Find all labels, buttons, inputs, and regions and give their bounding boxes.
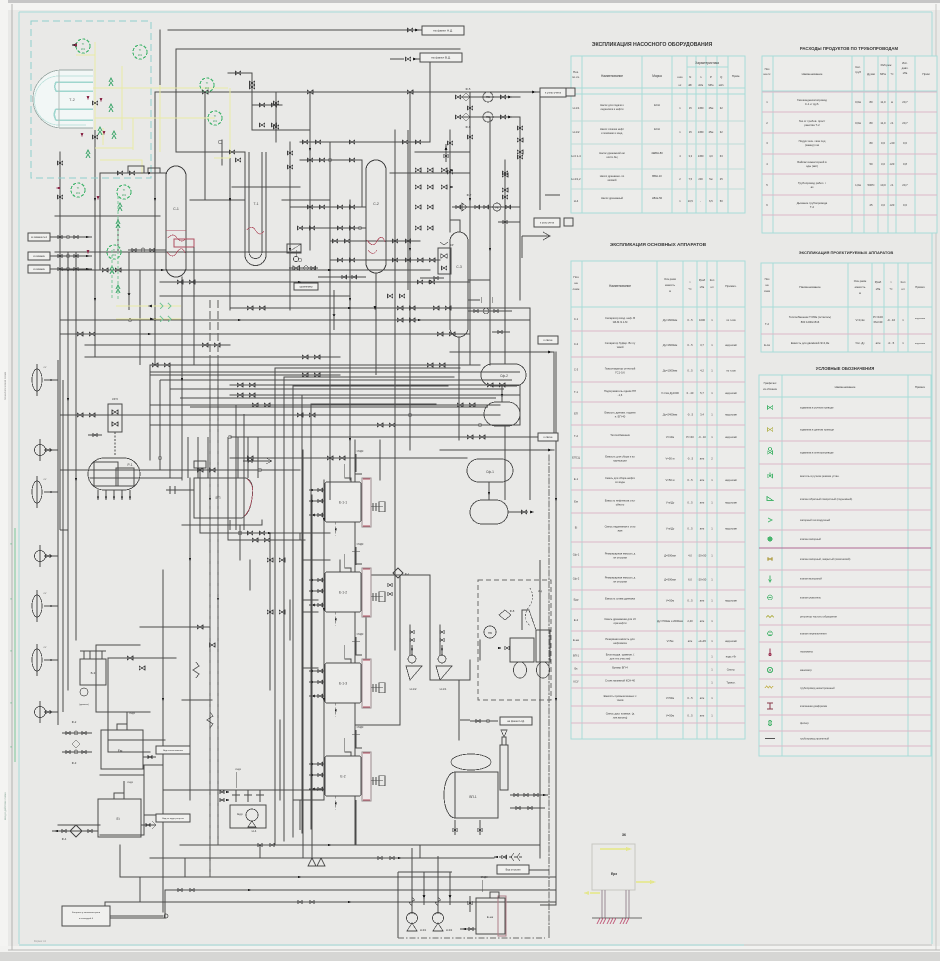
svg-text:Насос дренажной ем: Насос дренажной ем	[599, 151, 625, 155]
dash valve row above label	[494, 856, 522, 858]
wire h y458	[230, 457, 467, 459]
svg-text:Е-1-2: Е-1-2	[339, 591, 347, 595]
svg-text:Осн.разм: Осн.разм	[664, 277, 676, 281]
svg-text:-1,6: -1,6	[618, 393, 623, 397]
svg-text:0...40: 0...40	[687, 391, 694, 395]
wire v x68	[67, 252, 69, 690]
table T5 legend	[759, 366, 931, 756]
wire h y668	[303, 667, 318, 669]
svg-text:Характеристика: Характеристика	[695, 61, 719, 65]
valve at 405,142	[402, 140, 407, 144]
svg-text:ТІ: ТІ	[139, 48, 142, 52]
label to flare bottom	[500, 717, 532, 725]
svg-text:1000: 1000	[699, 318, 705, 322]
wire h y425	[150, 424, 520, 426]
svg-text:на сх: на сх	[764, 72, 771, 76]
wire h y658	[108, 657, 176, 659]
svg-text:V=50 м: V=50 м	[666, 457, 675, 461]
svg-text:1450: 1450	[698, 154, 704, 158]
svg-text:Смотр.: Смотр.	[727, 668, 736, 672]
wire v x163	[162, 570, 164, 912]
svg-text:надз.комп: надз.комп	[725, 344, 738, 347]
dehydrator E-2	[309, 738, 385, 810]
svg-text:Е-2: Е-2	[574, 618, 579, 622]
svg-text:НВ-Е-50: НВ-Е-50	[652, 196, 663, 200]
svg-text:технологическая схема: технологическая схема	[4, 371, 7, 400]
svg-text:Наименование: Наименование	[601, 74, 623, 78]
svg-text:Смесь друг. коммун. (д: Смесь друг. коммун. (д	[606, 712, 635, 716]
svg-text:1450: 1450	[698, 130, 704, 134]
svg-text:и площадей 4: и площадей 4	[79, 917, 94, 920]
valve at 310,160	[307, 158, 312, 162]
wire v x540	[539, 92, 541, 180]
wire h y252	[55, 251, 300, 253]
svg-text:из скважин №1: из скважин №1	[31, 236, 48, 239]
vessel Ei	[98, 781, 190, 837]
valve at 274,105	[271, 103, 276, 107]
wire h y478	[90, 477, 182, 479]
svg-text:3,4: 3,4	[700, 413, 704, 417]
wire h y437	[230, 436, 554, 438]
wire v x380	[379, 440, 381, 480]
svg-text:ЕСН: ЕСН	[654, 127, 660, 131]
wire v x105	[104, 902, 106, 918]
svg-text:Примеч: Примеч	[915, 385, 926, 389]
svg-text:ЭКСПЛИКАЦИЯ ПРОЕКТИРУЕМЫХ АППА: ЭКСПЛИКАЦИЯ ПРОЕКТИРУЕМЫХ АППАРАТОВ	[799, 250, 894, 255]
left manifold separators	[32, 360, 63, 725]
svg-text:50: 50	[869, 162, 873, 166]
svg-text:кПа: кПа	[700, 285, 705, 289]
svg-text:Вид на ждущ.отпр.зм: Вид на ждущ.отпр.зм	[162, 818, 184, 820]
wire h y216	[55, 215, 160, 217]
wire h y375	[150, 374, 340, 376]
wire h y92	[155, 91, 540, 93]
wire v x310	[309, 92, 311, 250]
svg-text:С-2: С-2	[373, 202, 379, 206]
svg-text:надз.+9т: надз.+9т	[726, 655, 737, 659]
svg-text:Резервуарная емкость д: Резервуарная емкость д	[605, 576, 636, 580]
svg-text:задвижка в электроприводе: задвижка в электроприводе	[800, 452, 834, 455]
wire v x470	[469, 660, 471, 680]
vessel VP-1 with stack	[444, 730, 548, 835]
svg-text:задвижка в ручном приводе: задвижка в ручном приводе	[800, 407, 834, 410]
wire h y395	[230, 394, 520, 396]
svg-text:Вид использования: Вид использования	[163, 750, 184, 752]
svg-text:СМДК: СМДК	[357, 543, 364, 546]
svg-text:ВП-1: ВП-1	[573, 654, 580, 658]
svg-text:Примеч: Примеч	[915, 285, 925, 289]
wire h y825	[58, 824, 100, 826]
svg-text:≡: ≡	[10, 649, 12, 653]
svg-text:Поз: Поз	[765, 277, 771, 281]
valve at 418,142	[415, 140, 420, 144]
svg-text:надз.комп: надз.комп	[915, 343, 926, 345]
svg-text:Н-1/2: Н-1/2	[573, 130, 580, 134]
wire v x410	[409, 92, 411, 450]
svg-text:0,6м: 0,6м	[855, 100, 861, 104]
valve at 300,228	[297, 226, 302, 230]
valve stack x95	[92, 101, 97, 105]
wire v x410	[409, 625, 411, 655]
svg-text:ойного: ойного	[616, 503, 625, 507]
svg-text:Е-1-3: Е-1-3	[339, 682, 347, 686]
svg-text:ЭЗ-М.Э.1-М: ЭЗ-М.Э.1-М	[613, 320, 628, 324]
svg-text:7,5: 7,5	[688, 177, 692, 181]
svg-text:Т-1: Т-1	[574, 390, 579, 394]
svg-text:трубопровод незастроенный: трубопровод незастроенный	[800, 686, 835, 690]
svg-text:0...5: 0...5	[687, 501, 693, 505]
wire v x395	[394, 130, 396, 590]
svg-text:Резервная емкость для: Резервная емкость для	[605, 637, 635, 641]
C-1 bottom red detail	[128, 239, 194, 365]
wire h y73	[228, 72, 252, 74]
valve at 262,105	[259, 103, 264, 107]
wire v x430	[429, 575, 431, 680]
svg-text:V=50м: V=50м	[666, 599, 674, 603]
svg-text:0...5: 0...5	[687, 369, 693, 373]
svg-text:Емкость для движtelей Э=4,0м: Емкость для движtelей Э=4,0м	[791, 341, 830, 345]
wire h y540	[228, 539, 305, 541]
svg-text:к-во: к-во	[677, 75, 683, 79]
svg-text:1,6м: 1,6м	[855, 183, 861, 187]
svg-text:-0...5: -0...5	[888, 341, 895, 345]
column C-3	[450, 232, 468, 337]
valve at 352,228	[349, 226, 354, 230]
svg-text:Формат А1: Формат А1	[34, 940, 47, 943]
pumps H-3/1 H-3/2	[398, 848, 453, 938]
svg-text:Н-1/1: Н-1/1	[440, 687, 447, 691]
valve at 352,142	[349, 140, 354, 144]
wire v x490	[489, 117, 491, 365]
svg-text:клапан переключения: клапан переключения	[800, 633, 827, 636]
svg-text:по т.осв: по т.осв	[726, 319, 736, 322]
svg-text:ЕПСЦ: ЕПСЦ	[572, 456, 580, 460]
svg-text:ТІ: ТІ	[206, 81, 209, 85]
svg-text:Н-4: Н-4	[252, 829, 257, 833]
wire h y173	[100, 172, 166, 174]
svg-text:на факел Н.Д.: на факел Н.Д.	[433, 29, 453, 33]
svg-text:V=5м: V=5м	[667, 639, 674, 643]
wire v x165	[164, 890, 166, 918]
dehydrator E-1-2	[309, 554, 385, 626]
wire h y345	[85, 344, 230, 346]
dash-dot vertical pair x210 x218	[209, 300, 211, 877]
svg-text:0,6: 0,6	[881, 141, 885, 145]
svg-text:Рт=100: Рт=100	[873, 315, 883, 319]
svg-text:≡: ≡	[10, 542, 12, 546]
wire v x276	[275, 92, 277, 142]
wire v x190	[189, 478, 191, 800]
svg-text:клапан указатель: клапан указатель	[800, 597, 822, 600]
svg-text:Кол: Кол	[710, 278, 715, 282]
svg-text:20,7: 20,7	[902, 100, 908, 104]
wire h y790	[163, 789, 324, 791]
wire v x228	[227, 478, 229, 540]
svg-text:-0...5: -0...5	[687, 413, 694, 417]
svg-text:Н-4: Н-4	[574, 199, 579, 203]
svg-text:СМДК: СМДК	[129, 713, 136, 715]
svg-text:атм: атм	[700, 528, 705, 531]
wire v x290	[289, 142, 291, 310]
wire v x205	[204, 92, 206, 200]
svg-text:Е-нж: Е-нж	[573, 638, 579, 642]
svg-text:ЭКСПЛИКАЦИЯ ОСНОВНЫХ АППАРАТОВ: ЭКСПЛИКАЦИЯ ОСНОВНЫХ АППАРАТОВ	[610, 242, 707, 247]
wire h y260	[330, 259, 440, 261]
wire v x140	[139, 270, 141, 330]
wire v x200	[199, 478, 201, 533]
svg-text:Е-сж: Е-сж	[764, 343, 770, 347]
label k uzlu ucheta 2	[534, 218, 560, 227]
heat exchanger T-2	[33, 70, 93, 128]
valve at 262,125	[259, 123, 264, 127]
svg-text:Ерз: Ерз	[611, 872, 617, 876]
svg-text:труб: труб	[855, 70, 861, 74]
wire v x540	[539, 845, 541, 858]
wire h y152	[415, 151, 470, 153]
wire h y600	[303, 599, 318, 601]
svg-text:°С: °С	[889, 287, 892, 291]
svg-text:надз.комп: надз.комп	[725, 479, 738, 482]
svg-text:Ду=1600мм: Ду=1600мм	[663, 343, 678, 347]
svg-text:201: 201	[81, 47, 86, 51]
vessel B-3	[79, 651, 106, 706]
valve stack x276	[273, 101, 278, 105]
valve at 352,160	[349, 158, 354, 162]
wire h y405	[150, 404, 500, 406]
wire v x362	[361, 160, 363, 207]
column C-2	[366, 160, 386, 273]
wire h y160	[300, 159, 362, 161]
svg-text:Емкость для сбора и ко: Емкость для сбора и ко	[605, 455, 635, 459]
svg-text:ВВН-10: ВВН-10	[652, 174, 662, 178]
svg-text:регулятор частоты обращения: регулятор частоты обращения	[800, 615, 837, 619]
svg-text:Блок выдув. уравнов. (: Блок выдув. уравнов. (	[606, 653, 635, 657]
svg-text:Наименование: Наименование	[799, 285, 821, 289]
svg-text:по т.осв: по т.осв	[726, 370, 736, 373]
svg-text:4,0: 4,0	[709, 154, 713, 158]
svg-text:термометр: термометр	[800, 651, 814, 654]
svg-text:Е-1: Е-1	[574, 477, 579, 481]
svg-text:ля отгрузки: ля отгрузки	[613, 557, 628, 560]
double vertical x408	[407, 130, 409, 290]
yellow lines E-rez	[583, 847, 656, 895]
svg-text:1450: 1450	[698, 106, 704, 110]
valve at 347,241	[344, 239, 349, 243]
wire v x118	[117, 216, 119, 252]
svg-text:надз.комп: надз.комп	[725, 436, 738, 439]
svg-text:800 1200х1516: 800 1200х1516	[801, 320, 820, 324]
C-3 bottom valve row	[468, 297, 512, 334]
svg-text:СМДК: СМДК	[481, 876, 488, 879]
extra bottom texture	[140, 405, 540, 904]
pipe break zigzag x196	[193, 662, 199, 678]
wire h y845	[180, 844, 540, 846]
wire h y385	[230, 384, 520, 386]
svg-text:-0...5: -0...5	[687, 457, 694, 461]
svg-text:об/м: об/м	[698, 84, 703, 87]
svg-text:задвижка в данном приводе: задвижка в данном приводе	[800, 429, 834, 432]
svg-text:по сх.: по сх.	[572, 75, 580, 79]
svg-text:25м: 25м	[709, 130, 714, 134]
wire h y890	[165, 889, 556, 891]
vessel Em	[101, 712, 190, 769]
green small arrows	[109, 78, 113, 82]
svg-text:надз.комп: надз.комп	[725, 528, 738, 531]
svg-text:Н-4/1,2: Н-4/1,2	[571, 177, 581, 181]
svg-text:надз.комп: надз.комп	[725, 392, 738, 395]
svg-text:Кол: Кол	[901, 280, 906, 284]
wire h y680	[430, 679, 470, 681]
svg-text:уровнемер: уровнемер	[299, 285, 313, 288]
svg-text:Н-1/1: Н-1/1	[573, 106, 580, 110]
wire v x350	[349, 200, 351, 480]
svg-text:из скважин: из скважин	[33, 256, 45, 258]
svg-text:ТІ: ТІ	[123, 188, 126, 192]
svg-text:ЕСН: ЕСН	[654, 103, 660, 107]
svg-text:Рраб: Рраб	[699, 278, 706, 282]
svg-text:Р-1: Р-1	[128, 463, 133, 467]
svg-text:ТІ: ТІ	[214, 114, 217, 118]
svg-text:клапанная диафрагма: клапанная диафрагма	[800, 704, 828, 708]
valve at 352,260	[349, 258, 354, 262]
svg-text:≡: ≡	[10, 745, 12, 749]
svg-text:схем: схем	[764, 290, 770, 293]
black inlet arrow	[71, 43, 77, 47]
wire v x144	[143, 765, 145, 835]
left margin small texts	[4, 371, 7, 400]
valve at 305,142	[302, 140, 307, 144]
svg-text:Ду=2400мм: Ду=2400мм	[663, 413, 678, 417]
svg-text:201: 201	[76, 191, 81, 195]
wire h y357	[85, 356, 340, 358]
svg-text:Газосепаратор сетчатый: Газосепаратор сетчатый	[605, 367, 636, 371]
wire h y858	[150, 857, 494, 859]
wire v x366	[365, 575, 367, 700]
left inlet labels	[28, 233, 92, 273]
wire h y142	[300, 141, 430, 143]
svg-text:С-3: С-3	[574, 368, 579, 372]
label leader to boundary	[529, 869, 549, 871]
wire h y105	[252, 104, 282, 106]
svg-text:Сф-2: Сф-2	[573, 577, 580, 581]
valve rows right of C-2	[397, 168, 454, 322]
svg-text:FE: FE	[495, 206, 499, 210]
svg-text:Вид отгрузки: Вид отгрузки	[506, 868, 521, 871]
svg-text:С-1 и труб.: С-1 и труб.	[805, 102, 819, 106]
wire h y765	[144, 764, 162, 766]
svg-text:Прим.: Прим.	[732, 74, 741, 78]
wire v x230	[229, 130, 231, 310]
wire v x160	[159, 30, 161, 95]
svg-text:≡: ≡	[10, 701, 12, 705]
svg-text:Насос откачки нефт: Насос откачки нефт	[600, 127, 625, 131]
svg-text:0...5: 0...5	[687, 343, 693, 347]
wire h y645	[96, 644, 140, 646]
svg-text:МПа: МПа	[708, 84, 714, 87]
svg-text:0...5: 0...5	[687, 478, 693, 482]
svg-text:5м: 5м	[709, 177, 712, 181]
valve at 335,241	[332, 239, 337, 243]
svg-text:С-1: С-1	[574, 317, 579, 321]
wire h y575	[355, 574, 430, 576]
svg-text:Исп.: Исп.	[902, 61, 908, 65]
svg-text:Ду=1600мм: Ду=1600мм	[663, 318, 678, 322]
svg-text:-0...10: -0...10	[698, 435, 706, 439]
svg-text:0...5: 0...5	[687, 696, 693, 700]
valve at 310,207	[307, 205, 312, 209]
svg-text:ТІ: ТІ	[113, 248, 116, 252]
svg-text:к узлу учета: к узлу учета	[545, 91, 561, 95]
svg-text:атм: атм	[700, 715, 705, 718]
misc short connectors	[60, 180, 560, 905]
wire v x303	[302, 450, 304, 858]
svg-text:-: -	[700, 200, 701, 203]
separator Sf-1	[467, 459, 534, 524]
svg-text:Н-1/2: Н-1/2	[410, 687, 417, 691]
svg-text:Прим: Прим	[922, 72, 929, 76]
wire v x556	[555, 352, 557, 905]
wire v x100	[99, 173, 101, 270]
svg-text:надз.комп: надз.комп	[725, 600, 738, 603]
svg-text:Ду=700мм и 2000мм: Ду=700мм и 2000мм	[657, 619, 683, 623]
svg-text:Д=500мм: Д=500мм	[664, 578, 676, 582]
column C-1	[166, 166, 186, 277]
wire h y30	[168, 29, 462, 31]
svg-text:V м/Ду: V м/Ду	[666, 527, 675, 531]
svg-text:Сепаратор буфер. Вх пу: Сепаратор буфер. Вх пу	[605, 341, 636, 345]
svg-text:ЭКСПЛИКАЦИЯ НАСОСНОГО ОБОРУДОВ: ЭКСПЛИКАЦИЯ НАСОСНОГО ОБОРУДОВАНИЯ	[592, 42, 713, 48]
svg-text:Ем: Ем	[118, 749, 123, 753]
wire v x505	[504, 160, 506, 364]
svg-text:МПа: МПа	[880, 72, 886, 76]
wire nested loops center-bottom	[275, 368, 460, 845]
valve at 395,241	[392, 239, 397, 243]
valve at 340,260	[337, 258, 342, 262]
svg-text:6,0: 6,0	[688, 578, 692, 582]
svg-text:-20+50: -20+50	[698, 578, 707, 582]
svg-text:атм: атм	[700, 697, 705, 700]
valve at 420,282	[417, 280, 422, 284]
dehydrator E-1-1	[309, 464, 385, 536]
svg-text:вентиль в ручном режиме устан.: вентиль в ручном режиме устан.	[800, 475, 840, 478]
wire v x266	[265, 160, 267, 200]
wire h y525	[182, 524, 262, 526]
frame	[11, 4, 13, 950]
svg-text:Теплообменник Т=80м (осталось): Теплообменник Т=80м (осталось)	[789, 315, 831, 319]
valve stack x60	[57, 161, 62, 165]
vessel P-1	[88, 458, 140, 500]
wire v x450	[449, 130, 451, 232]
svg-text:для тех.очистки): для тех.очистки)	[610, 657, 631, 661]
svg-text:манометр: манометр	[800, 669, 812, 672]
svg-text:201: 201	[138, 53, 143, 57]
svg-text:Раб.реж: Раб.реж	[881, 63, 892, 67]
wire h y775	[100, 774, 144, 776]
svg-text:Еі: Еі	[116, 817, 119, 821]
wire h y712	[96, 711, 150, 713]
valve at 322,160	[319, 158, 324, 162]
svg-text:50РС: 50РС	[868, 183, 875, 187]
svg-text:Подогреватель одним ПП: Подогреватель одним ПП	[604, 389, 636, 393]
svg-text:Упл. Ду: Упл. Ду	[855, 341, 865, 345]
extra valve clusters and instruments	[67, 90, 557, 903]
wire h y877	[120, 876, 556, 878]
tiny end boxes at schematic-table boundary	[566, 88, 575, 96]
svg-text:Ф-7: Ф-7	[467, 193, 472, 197]
svg-text:4ШВН-80: 4ШВН-80	[651, 151, 663, 155]
wire v x300	[299, 533, 301, 540]
svg-text:к свече: к свече	[544, 436, 553, 439]
